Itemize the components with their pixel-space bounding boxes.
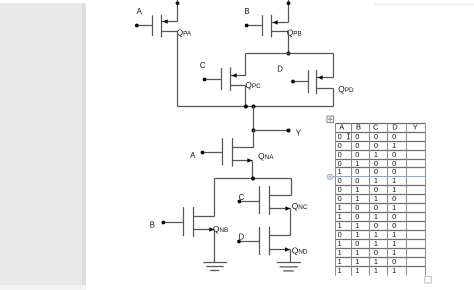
svg-text:1: 1 xyxy=(374,230,378,239)
svg-text:1: 1 xyxy=(392,239,396,248)
svg-text:1: 1 xyxy=(338,212,342,221)
node: junction QNA on NMOS rail xyxy=(251,177,255,181)
node: gate dot QNA xyxy=(201,151,205,155)
svg-text:1: 1 xyxy=(392,266,396,275)
svg-text:1: 1 xyxy=(355,194,359,203)
svg-text:A: A xyxy=(137,7,143,16)
svg-text:0: 0 xyxy=(392,257,396,266)
svg-text:1: 1 xyxy=(392,141,396,150)
transistor QPA xyxy=(138,15,178,38)
svg-text:0: 0 xyxy=(392,150,396,159)
node: junction QPC on output rail xyxy=(244,105,248,109)
wire: QND source down to ground xyxy=(290,250,292,263)
node: gate dot QND xyxy=(237,240,241,244)
svg-text:1: 1 xyxy=(355,230,359,239)
svg-text:1: 1 xyxy=(338,221,342,230)
svg-text:1: 1 xyxy=(374,212,378,221)
wire: QNA source down to NMOS rail xyxy=(252,161,254,179)
svg-text:0: 0 xyxy=(392,132,396,141)
ground under QND xyxy=(277,263,301,271)
svg-text:0: 0 xyxy=(392,167,396,176)
svg-text:0: 0 xyxy=(338,194,342,203)
transistor QNC xyxy=(241,186,292,215)
wire: QPA drain down to output rail xyxy=(177,32,179,107)
transistor QPC xyxy=(206,67,246,91)
svg-text:1: 1 xyxy=(338,167,342,176)
svg-text:0: 0 xyxy=(355,212,359,221)
wire: pair rail down to QPC xyxy=(245,54,247,76)
svg-text:0: 0 xyxy=(338,150,342,159)
svg-text:B: B xyxy=(356,123,361,132)
node: gate dot QPB xyxy=(245,24,249,28)
svg-text:1: 1 xyxy=(374,176,378,185)
svg-text:0: 0 xyxy=(392,194,396,203)
wire: QPC down to output rail xyxy=(245,86,247,107)
transistor QNA xyxy=(204,138,254,166)
svg-text:0: 0 xyxy=(355,167,359,176)
svg-text:0: 0 xyxy=(374,221,378,230)
node: VDD dot above QPB xyxy=(287,1,291,5)
node: VDD dot above QPA xyxy=(176,1,180,5)
svg-text:1: 1 xyxy=(392,185,396,194)
truth table move handle xyxy=(327,116,334,123)
wire: VDD stub above QPB xyxy=(288,0,290,23)
svg-text:0: 0 xyxy=(355,141,359,150)
svg-text:0: 0 xyxy=(374,167,378,176)
left gray margin strip xyxy=(0,3,86,290)
svg-text:1: 1 xyxy=(338,257,342,266)
svg-text:1: 1 xyxy=(392,230,396,239)
svg-text:0: 0 xyxy=(374,132,378,141)
svg-text:0: 0 xyxy=(338,132,342,141)
svg-text:C: C xyxy=(373,123,379,132)
wire: rail down to QNC drain xyxy=(291,179,293,196)
svg-text:0: 0 xyxy=(355,176,359,185)
wire: pair rail down to QPD xyxy=(333,54,335,78)
node: Y terminal dot xyxy=(287,129,291,133)
node: junction Y-branch on output rail xyxy=(252,105,256,109)
truth table data rows xyxy=(338,132,397,275)
svg-text:B: B xyxy=(244,7,249,16)
svg-text:0: 0 xyxy=(374,141,378,150)
truth table resize handle xyxy=(425,277,431,283)
svg-text:1: 1 xyxy=(374,257,378,266)
wire: Y tee down to QNA drain xyxy=(253,131,255,148)
transistor QPD xyxy=(295,70,334,95)
svg-text:1: 1 xyxy=(338,203,342,212)
svg-text:1: 1 xyxy=(355,257,359,266)
truth table row borders xyxy=(336,124,426,267)
wire: VDD stub above QPA xyxy=(177,0,179,22)
svg-text:A: A xyxy=(339,123,344,132)
svg-text:0: 0 xyxy=(392,212,396,221)
svg-text:1: 1 xyxy=(338,266,342,275)
truth table header row xyxy=(339,123,417,132)
svg-text:D: D xyxy=(239,233,245,242)
svg-text:1: 1 xyxy=(374,150,378,159)
ground under QNB xyxy=(204,263,228,271)
text cursor in cell A1 xyxy=(347,134,350,139)
svg-text:0: 0 xyxy=(338,141,342,150)
svg-text:0: 0 xyxy=(338,230,342,239)
svg-text:1: 1 xyxy=(374,194,378,203)
node: junction QPB/pair rail xyxy=(287,52,291,56)
svg-text:Y: Y xyxy=(296,129,302,138)
svg-text:B: B xyxy=(150,221,155,230)
node: gate dot QPA xyxy=(135,24,139,28)
wire: QPD down to output rail xyxy=(333,89,335,107)
svg-text:1: 1 xyxy=(374,266,378,275)
svg-text:Y: Y xyxy=(413,123,418,132)
svg-text:1: 1 xyxy=(392,248,396,257)
svg-text:1: 1 xyxy=(392,203,396,212)
wire: Y output stub xyxy=(254,130,289,132)
truth table column borders xyxy=(336,124,426,276)
node: gate dot QNB xyxy=(162,221,166,225)
svg-text:1: 1 xyxy=(392,176,396,185)
wire: output rail bottom of PMOS network xyxy=(178,106,334,108)
svg-text:0: 0 xyxy=(338,176,342,185)
svg-text:A: A xyxy=(190,151,196,160)
svg-text:0: 0 xyxy=(355,132,359,141)
svg-text:0: 0 xyxy=(338,185,342,194)
wire: QNB source down to ground xyxy=(214,230,216,263)
wire: QNC source down to QND drain xyxy=(290,209,292,236)
transistor QND xyxy=(241,227,291,256)
svg-text:1: 1 xyxy=(374,239,378,248)
svg-text:0: 0 xyxy=(355,150,359,159)
transistor QPB xyxy=(248,15,289,38)
svg-text:0: 0 xyxy=(355,239,359,248)
svg-text:1: 1 xyxy=(355,221,359,230)
svg-text:0: 0 xyxy=(392,221,396,230)
wire: top rail of QPC-QPD pair xyxy=(246,53,334,55)
svg-text:1: 1 xyxy=(338,248,342,257)
svg-text:D: D xyxy=(277,65,283,74)
node: gate dot QPC xyxy=(203,78,207,82)
svg-text:0: 0 xyxy=(374,185,378,194)
node: gate dot QNC xyxy=(238,200,242,204)
svg-text:C: C xyxy=(239,193,245,202)
svg-text:0: 0 xyxy=(374,248,378,257)
svg-text:1: 1 xyxy=(355,266,359,275)
svg-text:0: 0 xyxy=(355,203,359,212)
node: Y tee dot xyxy=(252,129,256,133)
anchored row border (blue) xyxy=(333,176,426,178)
svg-text:1: 1 xyxy=(355,185,359,194)
wire: NMOS parallel rail xyxy=(215,178,292,180)
wire: output rail down to Y tee xyxy=(253,107,255,131)
node: gate dot QPD xyxy=(291,80,295,84)
wire: rail down to QNB drain xyxy=(214,179,216,217)
svg-text:D: D xyxy=(392,123,398,132)
svg-text:1: 1 xyxy=(355,248,359,257)
wire: QPB drain down to pair rail xyxy=(288,32,290,54)
svg-text:0: 0 xyxy=(374,203,378,212)
svg-text:C: C xyxy=(200,61,206,70)
svg-text:1: 1 xyxy=(338,239,342,248)
transistor QNB xyxy=(165,207,215,237)
anchor circle icon xyxy=(327,174,332,179)
